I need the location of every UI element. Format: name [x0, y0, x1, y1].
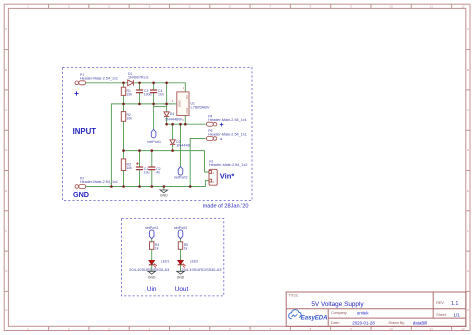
junction C4 top on input rail	[152, 82, 155, 85]
svg-text:Date:: Date:	[331, 321, 340, 325]
title block outline	[286, 292, 466, 326]
svg-text:dataBill: dataBill	[413, 321, 427, 326]
wire: top rail from P1 to U1 pin1	[86, 83, 185, 92]
net flag netPort1	[147, 129, 161, 144]
wire: R3 stubs	[123, 151, 125, 187]
wire: divider wire with left vertical	[111, 104, 176, 187]
svg-text:Header-Male-2.54_1x1: Header-Male-2.54_1x1	[208, 118, 247, 122]
svg-text:-: -	[220, 136, 223, 143]
svg-text:F: F	[5, 229, 7, 233]
resistor R3	[121, 159, 132, 171]
capacitor C2	[148, 167, 160, 175]
svg-text:3: 3	[182, 118, 184, 122]
junction C4 bottom / netPort1 on divider wire	[152, 103, 155, 106]
svg-text:Header-Male-2.54_1x1: Header-Male-2.54_1x1	[80, 76, 118, 80]
svg-text:IN: IN	[185, 95, 189, 98]
margin letters left	[5, 27, 8, 312]
svg-text:L7805ABV: L7805ABV	[191, 105, 211, 109]
junction D3 bottom on mid wire	[171, 149, 174, 152]
svg-text:10n: 10n	[158, 93, 164, 97]
regulator U1	[172, 86, 211, 122]
LED LED2	[178, 259, 222, 272]
svg-text:A: A	[5, 27, 7, 31]
dashed group box 2 (LED indicators)	[122, 219, 224, 296]
svg-text:11: 11	[430, 327, 433, 331]
svg-text:Vin*: Vin*	[220, 172, 235, 181]
svg-text:Uout: Uout	[175, 286, 189, 293]
connector P1	[75, 73, 118, 85]
junction D4 branch on input rail	[165, 82, 168, 85]
junction P6 drop on bottom rail	[189, 185, 192, 188]
svg-text:D: D	[5, 148, 8, 152]
connector H1	[209, 160, 248, 186]
svg-text:204-10SURD/S530-A3: 204-10SURD/S530-A3	[182, 268, 222, 272]
LED LED1	[129, 259, 169, 272]
svg-text:REV:: REV:	[436, 301, 444, 305]
svg-text:GND: GND	[178, 100, 182, 108]
wire: D3 top stub	[172, 124, 174, 140]
svg-text:+: +	[74, 88, 79, 98]
svg-text:Sheet:: Sheet:	[436, 313, 446, 317]
svg-text:H: H	[467, 308, 469, 312]
svg-text:1k: 1k	[184, 246, 188, 250]
margin numbers top	[27, 5, 465, 9]
connector P4	[206, 115, 247, 127]
junction R1 top on input rail	[122, 82, 125, 85]
svg-text:GND: GND	[73, 190, 89, 199]
junction U1 OUT pin on output wire	[184, 123, 187, 126]
wire: bottom rail from P2 to H1 pin2	[86, 181, 209, 187]
svg-text:C: C	[5, 108, 8, 112]
svg-text:Company:: Company:	[331, 311, 347, 315]
svg-text:GND: GND	[160, 194, 168, 198]
junction R2/R3 on mid wire	[122, 149, 125, 152]
svg-text:B: B	[467, 68, 469, 72]
junction R1/R2 on divider wire	[122, 103, 125, 106]
svg-text:G: G	[5, 269, 8, 273]
svg-text:OUT: OUT	[185, 107, 189, 114]
svg-text:unitek: unitek	[357, 311, 370, 316]
junction GND symbol on bottom rail	[163, 185, 166, 188]
svg-text:TITLE:: TITLE:	[289, 294, 299, 298]
svg-text:5V Voltage Supply: 5V Voltage Supply	[311, 301, 364, 308]
svg-text:1N4448: 1N4448	[176, 143, 190, 147]
svg-text:GND: GND	[177, 276, 185, 280]
wire: rail to D4 vertical	[166, 83, 168, 112]
margin letters right	[467, 27, 470, 312]
border ticks right	[466, 50, 470, 292]
svg-text:netPort2: netPort2	[174, 176, 188, 180]
ground symbol (LED1)	[148, 271, 156, 274]
svg-text:10u: 10u	[144, 170, 150, 174]
svg-text:Header-Male-2.54_1x1: Header-Male-2.54_1x1	[208, 132, 247, 136]
svg-text:GND: GND	[148, 276, 156, 280]
wire: R4 to LED1	[151, 249, 153, 260]
svg-text:10k: 10k	[127, 117, 133, 121]
wire: C4 stubs	[153, 83, 155, 104]
svg-text:4n: 4n	[156, 170, 160, 174]
svg-text:B: B	[5, 68, 7, 72]
svg-text:A: A	[467, 27, 469, 31]
border ticks bottom	[49, 326, 452, 330]
margin numbers bottom	[27, 327, 465, 331]
svg-text:D: D	[467, 148, 470, 152]
svg-text:1.1: 1.1	[451, 301, 458, 307]
wire: GND mid rail to H1 pin1	[124, 151, 210, 172]
wire: branch to D4	[154, 106, 167, 108]
svg-text:netPort1: netPort1	[145, 226, 159, 230]
svg-text:1/1: 1/1	[453, 312, 460, 317]
wire: GND symbol stub	[163, 187, 165, 191]
svg-text:G: G	[467, 269, 470, 273]
capacitor C4	[150, 89, 164, 97]
svg-text:H: H	[5, 308, 7, 312]
svg-text:+: +	[220, 122, 224, 129]
svg-text:E: E	[467, 189, 469, 193]
connector P2	[75, 177, 118, 189]
wire: C3 stubs	[139, 83, 141, 104]
svg-text:10: 10	[389, 327, 393, 331]
svg-text:12: 12	[461, 5, 465, 9]
wire: flag1 to R4	[151, 239, 153, 242]
dashed group box 1 (regulator circuit)	[63, 68, 253, 201]
svg-text:EasyEDA: EasyEDA	[301, 316, 328, 322]
svg-text:1N4448W: 1N4448W	[165, 117, 183, 121]
svg-text:10k: 10k	[127, 166, 133, 170]
svg-text:Header-Male-2.54_1x1: Header-Male-2.54_1x1	[80, 180, 118, 184]
svg-text:12: 12	[461, 327, 465, 331]
svg-text:INPUT: INPUT	[73, 127, 97, 136]
svg-text:C: C	[467, 108, 470, 112]
svg-text:Header-Male-2.54_1x2: Header-Male-2.54_1x2	[209, 163, 248, 167]
junction D4 bottom on output wire	[165, 123, 168, 126]
resistor R4	[150, 242, 160, 251]
wire: flag2 to R5	[180, 239, 182, 242]
connector P6	[206, 129, 247, 141]
junction netPort2 branch on output wire	[179, 123, 182, 126]
wire: LED2 to GND	[180, 265, 182, 272]
junction R3 bottom on bottom rail	[122, 185, 125, 188]
wire: R1-R2 stub	[123, 95, 125, 111]
svg-text:2: 2	[172, 99, 174, 103]
junction C3 bottom on divider wire	[138, 103, 141, 106]
resistor R2	[121, 112, 132, 122]
junction left vertical on bottom rail	[110, 185, 113, 188]
junction C1 bottom on bottom rail	[138, 185, 141, 188]
svg-text:made of 28Jan.'20: made of 28Jan.'20	[203, 204, 249, 210]
ground symbol (main)	[160, 190, 168, 193]
svg-text:Uin: Uin	[147, 286, 157, 293]
svg-text:Drawn By:: Drawn By:	[389, 321, 406, 325]
EasyEDA logo	[289, 310, 328, 322]
net flag netPort1 (box2)	[145, 226, 159, 239]
border ticks left	[4, 50, 8, 292]
junction C1 top on mid wire	[138, 149, 141, 152]
wire: R1 top stub	[123, 83, 125, 87]
capacitor C3	[136, 89, 152, 97]
wire: netPort1 drop	[153, 104, 155, 130]
diode D4	[164, 112, 183, 122]
svg-text:1N4007RLG: 1N4007RLG	[128, 76, 149, 80]
wire: C2 stubs	[151, 151, 153, 187]
diode D1	[128, 72, 149, 86]
wire: R2 bottom stub	[123, 121, 125, 150]
svg-text:1: 1	[183, 86, 185, 90]
svg-text:2020-01-28: 2020-01-28	[352, 321, 375, 326]
junction C2 bottom on bottom rail	[151, 185, 154, 188]
wire: D3 bottom stub	[172, 145, 174, 151]
svg-text:netPort2: netPort2	[174, 226, 188, 230]
resistor R5	[178, 242, 188, 251]
capacitor C1 polarized	[136, 162, 150, 174]
svg-text:15k: 15k	[127, 93, 133, 97]
ground symbol (LED2)	[177, 271, 185, 274]
svg-text:D4: D4	[170, 112, 174, 116]
svg-text:11: 11	[430, 5, 433, 9]
svg-text:10: 10	[389, 5, 393, 9]
wire: U1 OUT pin	[184, 115, 186, 124]
net flag netPort2 (box2)	[174, 226, 188, 239]
diode D3	[170, 140, 190, 148]
wire: LED1 to GND	[151, 265, 153, 272]
junction C3 top on input rail	[138, 82, 141, 85]
svg-text:E: E	[5, 189, 7, 193]
junction C2 top on mid wire	[151, 149, 154, 152]
net flag netPort2	[174, 167, 188, 180]
svg-text:LED2: LED2	[190, 259, 199, 263]
junction D3 top on output wire	[171, 123, 174, 126]
svg-text:F: F	[467, 229, 469, 233]
wire: R5 to LED2	[180, 249, 182, 260]
wire: P6 wire down to bottom rail	[190, 139, 205, 187]
svg-text:LED1: LED1	[161, 259, 170, 263]
wire: OUT rail to P4	[167, 123, 206, 125]
wire: C1 stubs	[139, 151, 141, 187]
resistor R1	[121, 87, 132, 96]
svg-text:netPort1: netPort1	[147, 140, 161, 144]
svg-text:1k: 1k	[155, 246, 159, 250]
wire: D4 to OUT	[166, 117, 168, 124]
wire: netPort2 drop	[180, 124, 182, 166]
junction D4 vertical on divider wire	[165, 103, 168, 106]
